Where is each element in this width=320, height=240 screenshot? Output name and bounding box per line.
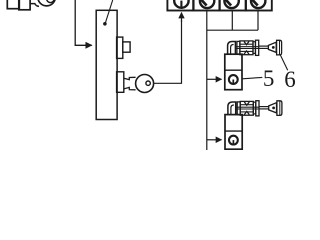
square 4 [246,0,272,11]
key bow circle [136,75,154,93]
key bow circle [38,0,56,6]
face symbol square3 [224,0,238,8]
keyway slot 1 [232,80,234,84]
svg-text:5: 5 [263,66,275,91]
housing box 1 [225,54,242,89]
branch arrow to assembly 2 [207,139,222,141]
leader line to label 6 [280,55,287,70]
key collar box [117,72,124,93]
key bow hole [47,0,54,3]
divider 2 [225,130,242,132]
leader dot [103,22,107,26]
divider 1 [225,69,242,71]
stub from square 4 [257,11,259,31]
wire [154,20,182,83]
up arrow into square 1 [181,13,183,23]
branch arrow to assembly 1 [207,78,222,80]
collar rect [19,0,30,10]
upper protrusion box2 [123,42,130,52]
leader line to label 5 [242,77,262,78]
face symbol square1 [174,0,188,8]
svg-text:6: 6 [284,67,296,92]
key neck nubs [124,77,136,79]
leader line with dot [105,0,113,23]
square 1 [167,0,193,11]
square 3 [220,0,246,11]
main drop line from square 2 [206,11,208,151]
square 2 [194,0,220,11]
junction bar [207,29,258,31]
upper protrusion box1 [117,37,123,58]
arrow into central unit [85,44,92,46]
key 1 [228,40,282,55]
face symbol square2 [200,0,214,8]
housing box 2 [225,115,242,150]
keyway slot 2 [232,140,234,144]
main tall rect [96,10,117,119]
wire L down-right [75,0,86,45]
cylinder face ring 2 [229,136,238,145]
cylinder face ring 1 [229,75,238,84]
key bow hole [146,81,150,85]
face symbol square4 [251,0,265,8]
cylinder body rect [7,0,19,9]
key 2 [228,101,282,116]
stub from square 3 [231,11,233,31]
key neck line [30,4,39,7]
